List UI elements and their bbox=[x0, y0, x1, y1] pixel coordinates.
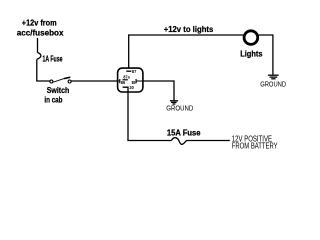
node label +12v from acc/fusebox bbox=[17, 18, 64, 38]
svg-text:acc/fusebox: acc/fusebox bbox=[17, 27, 64, 37]
svg-text:GROUND: GROUND bbox=[260, 79, 286, 88]
switch label Switch in cab bbox=[44, 85, 69, 104]
wire from lamp to right ground bbox=[258, 35, 273, 75]
svg-text:in cab: in cab bbox=[44, 95, 62, 105]
svg-text:GROUND: GROUND bbox=[166, 104, 193, 113]
wire from fuse F2 to battery feed bbox=[187, 140, 230, 142]
wire from fuse F1 down and corner toward switch S1 bbox=[37, 59, 50, 81]
svg-text:Lights: Lights bbox=[240, 49, 263, 59]
wire from relay pin 87 up to +12v lights feed bbox=[129, 35, 244, 68]
svg-text:FROM BATTERY: FROM BATTERY bbox=[232, 142, 278, 151]
svg-text:+12v to lights: +12v to lights bbox=[164, 24, 214, 34]
svg-text:1A Fuse: 1A Fuse bbox=[43, 53, 63, 63]
relay K1 body bbox=[118, 68, 143, 92]
lamp LIGHTS (circle symbol) bbox=[244, 31, 258, 45]
source label 12V POSITIVE FROM BATTERY bbox=[232, 135, 278, 151]
svg-text:86: 86 bbox=[121, 80, 126, 85]
svg-text:+12v from: +12v from bbox=[22, 18, 57, 28]
wire from relay pin 85 to relay ground bbox=[143, 81, 174, 100]
ground symbol (lamp return) bbox=[268, 75, 279, 79]
svg-text:30: 30 bbox=[129, 85, 134, 90]
wire from relay pin 30 down to fuse F2 bbox=[128, 92, 172, 141]
relay K1 pin 30 (bottom terminal) bbox=[123, 87, 128, 92]
ground symbol (relay coil return) bbox=[170, 101, 178, 104]
svg-text:87: 87 bbox=[132, 69, 137, 74]
relay K1 pin 86 (left terminal) bbox=[118, 79, 120, 83]
relay K1 pin 87 (top terminal) bbox=[126, 70, 131, 72]
switch S1 (SPST, contacts and lever) bbox=[50, 77, 71, 83]
svg-text:15A Fuse: 15A Fuse bbox=[167, 127, 201, 137]
svg-text:85: 85 bbox=[132, 80, 136, 85]
fuse F1 1A (squiggle symbol) bbox=[37, 53, 41, 60]
wire from acc/fusebox down to fuse F1 bbox=[37, 38, 39, 53]
fuse F2 15A (squiggle symbol) bbox=[172, 138, 188, 145]
wire from switch S1 to relay pin 86 bbox=[71, 80, 118, 82]
